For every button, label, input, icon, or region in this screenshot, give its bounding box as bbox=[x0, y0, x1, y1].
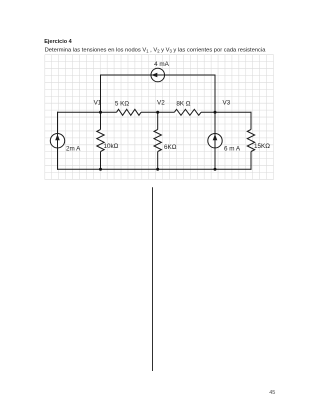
svg-text:5 KΩ: 5 KΩ bbox=[115, 101, 129, 108]
svg-text:2m A: 2m A bbox=[66, 146, 81, 153]
svg-text:V1: V1 bbox=[94, 100, 102, 107]
svg-text:15KΩ: 15KΩ bbox=[254, 143, 270, 150]
svg-text:4 mA: 4 mA bbox=[154, 61, 169, 68]
svg-text:Ejercicio 4: Ejercicio 4 bbox=[44, 39, 72, 45]
svg-text:8K Ω: 8K Ω bbox=[176, 101, 190, 108]
svg-text:Determina las tensiones en los: Determina las tensiones en los nodos V1 … bbox=[45, 47, 267, 53]
svg-text:10kΩ: 10kΩ bbox=[104, 143, 119, 150]
svg-text:6KΩ: 6KΩ bbox=[164, 144, 177, 151]
svg-text:45: 45 bbox=[269, 390, 275, 396]
svg-text:V3: V3 bbox=[223, 100, 231, 107]
svg-text:6 m A: 6 m A bbox=[224, 146, 241, 153]
svg-text:V2: V2 bbox=[157, 100, 165, 107]
